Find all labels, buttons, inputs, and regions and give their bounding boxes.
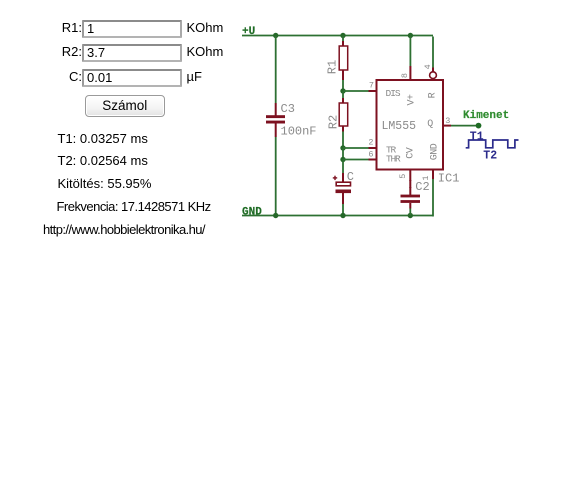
wire node THR to C (342, 160, 344, 174)
node junction top rail / R1 (340, 33, 345, 38)
result frequency (57, 199, 211, 214)
result T1 (58, 131, 148, 146)
pin 4 inversion bubble (430, 72, 437, 79)
wire pin 3 Kimenet (451, 125, 479, 127)
node junction top rail / C3 (273, 33, 278, 38)
waveform output (466, 140, 519, 148)
wire node TR to node THR (342, 148, 344, 160)
svg-text:7: 7 (369, 81, 374, 91)
input C (82, 69, 182, 87)
svg-text:Q: Q (427, 119, 433, 130)
node THR (340, 157, 345, 162)
svg-text:1: 1 (421, 175, 431, 180)
svg-text:6: 6 (368, 150, 373, 160)
node R1/R2/pin7 (340, 88, 345, 93)
resistor R1 (339, 41, 348, 80)
wire C2 to GND rail (409, 209, 411, 216)
node Kimenet (476, 123, 482, 129)
node junction top rail / pin 8 (408, 33, 413, 38)
unit uF (187, 69, 202, 84)
button Szamol (85, 95, 166, 117)
svg-text:2: 2 (368, 138, 373, 148)
wire pin 6 (343, 159, 369, 161)
svg-text:V+: V+ (406, 94, 417, 106)
capacitor C2 (401, 187, 421, 209)
form label R1 (0, 20, 82, 35)
IC U1 LM555 body (377, 80, 444, 170)
pin 5 lead (409, 170, 411, 182)
wire C to GND rail (342, 204, 344, 216)
svg-text:+U: +U (242, 26, 255, 38)
svg-text:LM555: LM555 (382, 120, 417, 133)
svg-text:THR: THR (386, 153, 401, 164)
pin 2 lead (369, 147, 377, 149)
url text (43, 222, 205, 237)
pin 1 lead (432, 170, 434, 180)
capacitor C3 (266, 103, 285, 137)
pin 4 lead (432, 68, 434, 72)
pin 3 lead (443, 125, 451, 127)
svg-text:T1: T1 (470, 131, 484, 144)
svg-text:R2: R2 (327, 115, 341, 129)
svg-text:8: 8 (400, 73, 410, 78)
svg-text:DIS: DIS (386, 88, 401, 99)
svg-text:CV: CV (405, 147, 416, 159)
svg-text:R: R (427, 92, 438, 98)
svg-text:C2: C2 (415, 180, 429, 194)
pin 6 lead (369, 159, 377, 161)
form label C (0, 69, 82, 84)
svg-text:R1: R1 (325, 60, 339, 74)
svg-text:Kimenet: Kimenet (463, 110, 509, 122)
wire C3 branch lower (275, 137, 277, 216)
wire pin 4 (432, 37, 434, 68)
svg-text:GND: GND (242, 206, 262, 218)
svg-text:100nF: 100nF (281, 124, 317, 138)
svg-text:C: C (347, 170, 354, 184)
pin 7 lead (369, 90, 377, 92)
unit KOhm (187, 20, 224, 35)
svg-text:5: 5 (398, 174, 408, 179)
svg-text:C3: C3 (281, 102, 295, 116)
wire +U top rail (242, 35, 433, 37)
node GND / C2 (408, 213, 413, 218)
wire C3 branch upper (275, 36, 277, 104)
unit KOhm (187, 44, 224, 59)
svg-text:T2: T2 (483, 150, 497, 163)
wire pin 2 (343, 147, 369, 149)
input R1 (82, 20, 182, 38)
wire pin 7 (343, 90, 369, 92)
result duty (58, 176, 152, 191)
GND rail (242, 215, 433, 217)
node GND / C (340, 213, 345, 218)
wire pin 5 to C2 (409, 180, 411, 188)
svg-text:GND: GND (429, 143, 440, 160)
wire pin 1 to GND rail (432, 179, 434, 217)
node GND / C3 (273, 213, 278, 218)
result T2 (58, 153, 148, 168)
wire pin 8 (409, 36, 411, 67)
svg-text:3: 3 (445, 116, 450, 126)
svg-text:IC1: IC1 (438, 172, 460, 186)
node TR (340, 145, 345, 150)
wire R branch top (342, 36, 344, 43)
resistor R2 (339, 98, 348, 132)
capacitor C polarized (333, 173, 351, 204)
pin 8 lead (409, 66, 411, 80)
wire R1 to node (342, 80, 344, 91)
wire node to R2 (342, 91, 344, 99)
form label R2 (0, 44, 82, 59)
wire R2 to node TR (342, 132, 344, 149)
input R2 (82, 44, 182, 62)
svg-text:4: 4 (423, 64, 433, 69)
